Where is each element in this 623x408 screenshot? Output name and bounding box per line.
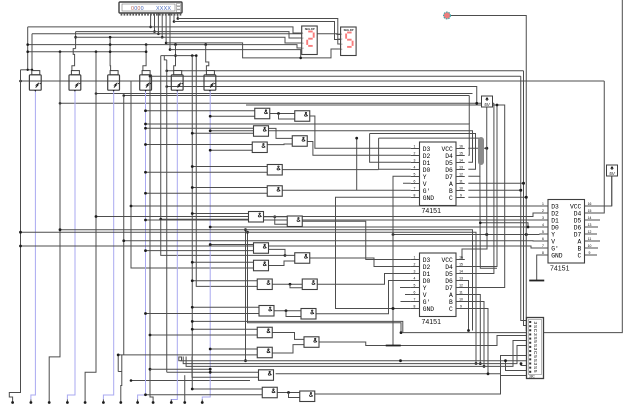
word generator XWG1 <box>119 2 182 16</box>
wire vertical V4 x123.75 <box>123 96 125 355</box>
wire gate input rail <box>150 334 257 336</box>
wire rail y246 to U6 pin7 <box>21 246 540 248</box>
svg-text:D3: D3 <box>423 146 431 153</box>
wire vertical V7 x160.75 to G12 in1 rail <box>161 56 285 256</box>
wire G21 branch to G22 in2 <box>289 393 300 398</box>
svg-text:3: 3 <box>542 216 544 220</box>
wire G21 out to G22 <box>277 392 300 394</box>
AND gate G18 <box>257 347 272 358</box>
wire G18 out to G19 in2 <box>272 345 304 353</box>
svg-text:Y: Y <box>423 285 427 292</box>
wire blue S3 output <box>103 91 113 400</box>
svg-text:VCC: VCC <box>570 203 582 210</box>
wire riser x369.6 to U4 D1 <box>370 134 411 163</box>
wire M8 down to U5 D4 <box>464 105 497 267</box>
digit 2 <box>307 32 314 46</box>
wire G12 out to U5 D2 <box>310 258 411 267</box>
wire rail y124 to U4 D4 <box>146 124 470 155</box>
wire vertical V10 x196.25 to G13 in2 <box>196 56 257 287</box>
svg-text:D3: D3 <box>551 203 559 210</box>
svg-text:Y: Y <box>423 174 427 181</box>
wire G9 out to 74151 U5 D3 <box>302 221 411 259</box>
wire riser x378.6 to U4 D0 <box>379 138 411 169</box>
wire riser to connector pin10 <box>521 364 527 366</box>
switch S4 <box>140 71 152 92</box>
svg-text:14: 14 <box>588 216 592 220</box>
wire S2 feed vertical A upper <box>75 32 77 49</box>
svg-text:D1: D1 <box>423 160 431 167</box>
wire vertical V9 x192.25 <box>191 56 193 389</box>
svg-text:D2: D2 <box>423 264 431 271</box>
svg-text:GND: GND <box>423 195 435 202</box>
wire rail y138.1 to U4 D7 <box>379 138 480 176</box>
wire terminal stub <box>201 400 203 403</box>
wire rail M4 bend to M7 <box>167 87 477 104</box>
AND gate G13 <box>257 279 272 290</box>
wire U5 D6 down <box>464 281 469 331</box>
svg-text:10: 10 <box>459 298 463 302</box>
svg-text:4: 4 <box>414 277 416 281</box>
+5V supply VCC2 <box>607 165 618 176</box>
wire M3 down to U6 D4 <box>593 81 604 213</box>
DIP connector J1 <box>527 318 544 379</box>
wire rail y216.5 to U6 D2 <box>96 213 540 217</box>
terminal node <box>66 401 69 404</box>
wire maze vertical x480.3 <box>480 176 497 268</box>
terminal node <box>201 401 204 404</box>
wire M7 down to U5 D5 <box>464 103 494 273</box>
wire terminal stub <box>170 400 172 403</box>
svg-text:A: A <box>449 292 453 299</box>
wire U5 GND stub <box>393 308 411 310</box>
wire from word generator pin <box>150 13 152 27</box>
svg-text:15: 15 <box>459 152 463 156</box>
wire G19 out to connector pin4 <box>319 336 527 346</box>
wire staircase hook <box>179 357 182 361</box>
svg-text:VCC: VCC <box>441 257 453 264</box>
svg-text:74151: 74151 <box>422 319 442 326</box>
wire U6 D5 stub <box>593 219 600 221</box>
wire rail y366.4 to connector pin5 <box>186 341 526 367</box>
wire terminal stub <box>184 400 186 403</box>
svg-text:SEG-DP: SEG-DP <box>305 27 315 31</box>
74151 multiplexer U6 <box>539 200 593 273</box>
svg-text:1: 1 <box>542 202 544 206</box>
wire WG to display U3 pin3 <box>178 19 341 45</box>
wire rail y133.5 to U4 D6 <box>370 134 476 170</box>
wire vertical V12 x247.5 joins route <box>248 232 402 332</box>
wire maze joins U6 D0 rail <box>480 223 528 227</box>
terminal node <box>170 401 173 404</box>
svg-text:5V: 5V <box>609 171 616 176</box>
ground GND2 <box>386 345 401 347</box>
svg-text:B: B <box>578 245 582 252</box>
wire rail y363.6 to connector pin6 <box>183 346 526 364</box>
svg-text:2: 2 <box>542 209 544 213</box>
AND gate G1 <box>255 108 270 119</box>
svg-text:16: 16 <box>588 202 592 206</box>
wire gate input rail <box>210 149 252 151</box>
wire x526.25 to U4 pin C <box>468 196 526 198</box>
svg-text:14: 14 <box>459 270 463 274</box>
wire U6 D6 stub <box>593 226 598 228</box>
wire U6 B stub <box>593 247 598 249</box>
wire terminal stub <box>137 400 139 403</box>
wire blue S6 output <box>202 91 210 400</box>
svg-text:7: 7 <box>542 244 544 248</box>
AND gate G20 <box>259 370 274 381</box>
wire riser to connector pin11 <box>506 361 527 371</box>
wire G11 out to G12 in2 <box>269 261 295 266</box>
74151 multiplexer U5 <box>411 253 465 326</box>
svg-text:A: A <box>578 238 582 245</box>
AND gate G10 <box>254 243 269 254</box>
wire gate input rail <box>146 394 263 396</box>
wire U5 A down <box>464 295 480 364</box>
wire G15 out to G16 <box>274 310 301 312</box>
svg-text:B: B <box>449 299 453 306</box>
switch S6 <box>204 71 216 92</box>
wire terminal stub <box>120 400 122 403</box>
svg-text:10: 10 <box>588 244 592 248</box>
wire vertical V5 x131 to G11 in2 <box>131 81 254 268</box>
wire rail R6 to display U2 pin4 <box>28 45 302 48</box>
wire x520.75 to U4 pin B <box>468 189 520 191</box>
svg-text:C: C <box>578 252 582 259</box>
svg-text:1: 1 <box>414 256 416 260</box>
svg-text:16: 16 <box>459 256 463 260</box>
wire terminal stub <box>30 400 32 403</box>
wire rail y229.7 wrap <box>60 230 473 331</box>
wire riser x356.7 to U4 G row <box>356 138 358 190</box>
svg-text:10: 10 <box>459 187 463 191</box>
wire rail M5 <box>96 93 473 95</box>
terminal node <box>119 401 122 404</box>
terminal node <box>84 401 87 404</box>
wire terminal stub <box>48 400 50 403</box>
wire rail R5 jog under display U2 to U3 <box>166 43 341 58</box>
wire WG to display U3 pin2 <box>174 22 341 40</box>
wire rail R2 to display U2 pin2 <box>76 32 302 38</box>
svg-text:D5: D5 <box>574 217 582 224</box>
wire rail R4 to display U2 pin3 <box>75 37 302 43</box>
wire gate input rail <box>146 171 268 173</box>
wire rail M7 <box>60 102 494 104</box>
wire terminal stub <box>66 400 68 403</box>
svg-text:9: 9 <box>460 194 462 198</box>
wire gate input rail <box>192 132 253 134</box>
svg-text:12: 12 <box>588 230 592 234</box>
svg-text:12: 12 <box>459 284 463 288</box>
wire G20 in1 rail <box>167 371 259 373</box>
terminal node <box>30 401 33 404</box>
wire U5 C down <box>464 309 488 374</box>
wire G13 branch to G14 in2 <box>290 284 302 288</box>
switch S2 <box>69 71 81 92</box>
wire G15 branch to G16 in2 <box>286 311 301 317</box>
svg-text:38C: 38C <box>529 375 536 379</box>
wire S1 feed vertical A <box>27 27 29 70</box>
wire gate input rail <box>192 261 253 263</box>
wire blue S5 output <box>171 91 177 402</box>
svg-text:D2: D2 <box>551 210 559 217</box>
terminal node <box>183 401 186 404</box>
svg-text:D6: D6 <box>445 278 453 285</box>
svg-text:3: 3 <box>414 270 416 274</box>
wire x523.5 to U4 pin A <box>468 182 523 184</box>
wire gate G1 out to G2 <box>270 113 295 115</box>
wire long route to right edge <box>192 0 622 333</box>
svg-text:D7: D7 <box>445 174 453 181</box>
wire gate input rail <box>192 166 267 168</box>
AND gate G16 <box>301 309 316 320</box>
wire S1 cap connector <box>21 69 33 71</box>
wire rail y377.2 G20 in2 <box>192 357 259 378</box>
svg-text:G′: G′ <box>551 245 559 252</box>
wire gate input rail <box>210 348 257 350</box>
svg-text:7: 7 <box>414 187 416 191</box>
svg-text:5: 5 <box>542 230 544 234</box>
switch S3 <box>108 71 120 92</box>
svg-text:74151: 74151 <box>422 208 442 215</box>
wire from word generator pin <box>154 13 156 32</box>
wire U6 C stub <box>593 254 597 256</box>
svg-text:6: 6 <box>414 291 416 295</box>
svg-text:7: 7 <box>414 298 416 302</box>
wire rail y130.75 to U4 D5 <box>210 131 472 163</box>
svg-text:4: 4 <box>414 166 416 170</box>
svg-text:5: 5 <box>414 173 416 177</box>
wire from word generator pin <box>173 13 175 22</box>
wire vertical V8 x166.75 <box>166 60 168 372</box>
wire U6 A stub <box>593 240 600 242</box>
svg-text:5: 5 <box>414 284 416 288</box>
wire U5 B down <box>464 302 484 367</box>
wire gate input rail <box>146 250 254 252</box>
wire from input pin to select C vertical <box>450 16 527 331</box>
svg-text:A: A <box>449 181 453 188</box>
wire from word generator pin <box>161 13 163 38</box>
wire terminal stub <box>152 400 154 403</box>
wire vertical V6 x150 <box>150 76 153 399</box>
svg-text:Y: Y <box>551 231 555 238</box>
AND gate G12 <box>295 253 310 264</box>
wire from word generator pin <box>169 13 171 50</box>
wire bundle blob <box>478 140 484 162</box>
svg-text:V: V <box>423 292 427 299</box>
wire terminal stub <box>12 400 14 403</box>
svg-text:5V: 5V <box>484 102 491 107</box>
wire rail M2 <box>150 75 521 77</box>
wire rail y55.6 <box>161 55 197 57</box>
wire U4 VCC to 5V <box>468 147 486 149</box>
wire U4 pin6 stub <box>403 182 411 184</box>
svg-text:D5: D5 <box>445 271 453 278</box>
wire G20 out to connector pin12 <box>276 374 527 376</box>
terminal node <box>136 401 139 404</box>
wire U5 VCC riser to 5V line <box>456 235 487 260</box>
wire gate input rail <box>118 354 257 356</box>
AND gate G9 <box>287 216 302 227</box>
wire G7 out to U4 G pin7 <box>282 189 411 191</box>
wire loop bottom at V4 <box>118 371 122 373</box>
svg-text:8: 8 <box>414 305 416 309</box>
wire M6 bend down <box>468 96 470 125</box>
wire rail y234.5 to U6 Y <box>393 234 540 236</box>
wire rail y360.7 to connector pin9 <box>180 360 526 362</box>
wire rail M1 <box>167 70 524 72</box>
wire gate input rail <box>192 388 262 390</box>
AND gate G11 <box>254 260 269 271</box>
wire G17 out to G19 in1 <box>272 333 304 340</box>
svg-text:D7: D7 <box>445 285 453 292</box>
seven segment display U2 <box>299 26 317 55</box>
wire gate input rail <box>210 115 255 117</box>
wire S3 feed vertical A <box>109 37 112 70</box>
wire G22 out to connector <box>315 356 527 395</box>
wire gate input rail <box>146 313 260 315</box>
digit 5 <box>346 33 353 47</box>
AND gate G8 <box>249 212 264 223</box>
svg-text:11: 11 <box>588 237 592 241</box>
svg-text:8: 8 <box>542 251 544 255</box>
svg-text:11: 11 <box>459 291 463 295</box>
terminal node <box>152 401 155 404</box>
wire rail y227 to U6 D0 <box>210 226 539 228</box>
switch S5 <box>171 71 183 92</box>
wire G1 out branch to G2 in2 <box>279 114 295 120</box>
wire G5 out to U4 D2 <box>307 142 411 156</box>
svg-text:D0: D0 <box>423 167 431 174</box>
svg-text:3SC3S5S3C5S3S5: 3SC3S5S3C5S3S5 <box>532 322 538 373</box>
wire rail y240.75 to U6 pin6 <box>124 240 540 242</box>
wire U4 GND route <box>336 197 411 308</box>
svg-text:D2: D2 <box>423 153 431 160</box>
wire blue S1 output <box>31 91 36 400</box>
wire S4 feed zigzag <box>143 45 146 71</box>
svg-text:GND: GND <box>551 252 563 259</box>
wire G14 out to U5 D1 <box>317 274 411 285</box>
wire rail R3 to display U3 pin1 <box>32 33 341 36</box>
svg-text:V: V <box>423 181 427 188</box>
svg-text:13: 13 <box>588 223 592 227</box>
wire rail R8 <box>170 50 301 58</box>
svg-text:14: 14 <box>459 159 463 163</box>
wire U5 pin6 stub <box>405 294 411 296</box>
wire 5V2 to U6 VCC <box>593 176 612 206</box>
AND gate G19 <box>304 337 319 348</box>
svg-text:D3: D3 <box>423 257 431 264</box>
wire G16 out to U5 D0 <box>316 281 411 314</box>
svg-text:3: 3 <box>414 159 416 163</box>
wire vertical V11 x245.5 <box>245 230 247 361</box>
svg-text:15: 15 <box>588 209 592 213</box>
wire gate input rail <box>192 280 257 282</box>
wire vertical V3 x96 <box>85 52 96 400</box>
svg-text:B: B <box>449 188 453 195</box>
AND gate G7 <box>267 186 282 197</box>
AND gate G15 <box>259 306 274 317</box>
svg-text:9: 9 <box>460 305 462 309</box>
svg-text:74151: 74151 <box>550 266 570 273</box>
terminal node <box>11 401 14 404</box>
AND gate G5 <box>292 136 307 147</box>
wire gate input rail <box>161 218 249 220</box>
svg-text:15: 15 <box>459 263 463 267</box>
svg-text:C: C <box>449 195 453 202</box>
wire S1 feed vertical B <box>31 34 33 71</box>
AND gate G4 <box>252 142 267 153</box>
wire rail y206 to U6 D3 <box>131 205 540 207</box>
wire select A vertical x523.5 <box>524 71 528 326</box>
wire bundle vertical to terminal <box>184 375 186 399</box>
ground GND1 <box>529 280 544 282</box>
wire gate input rail <box>210 244 253 246</box>
svg-text:13: 13 <box>459 166 463 170</box>
svg-text:6: 6 <box>414 180 416 184</box>
svg-text:8: 8 <box>414 194 416 198</box>
wire G8 out branch to G9 in2 <box>275 217 288 225</box>
+5V supply VCC1 <box>482 96 493 107</box>
svg-text:D1: D1 <box>423 271 431 278</box>
wire gate input rail <box>146 192 268 194</box>
svg-text:2: 2 <box>414 263 416 267</box>
svg-text:12: 12 <box>459 173 463 177</box>
wire G13 out to G14 <box>272 283 302 285</box>
svg-text:G′: G′ <box>423 299 431 306</box>
svg-text:D6: D6 <box>574 224 582 231</box>
svg-text:9: 9 <box>589 251 591 255</box>
svg-text:D7: D7 <box>574 231 582 238</box>
wire rail y220 to U6 D1 <box>146 219 540 221</box>
wire vertical V1 x20.5 <box>9 70 20 400</box>
svg-text:D4: D4 <box>574 210 582 217</box>
svg-text:4: 4 <box>542 223 544 227</box>
wire rail M3 <box>21 80 605 82</box>
input node pin <box>444 12 451 19</box>
wire G6 out joins riser <box>282 169 378 171</box>
wire S2 feed zigzag <box>72 49 76 71</box>
wire gate input rail <box>146 127 254 129</box>
svg-text:GND: GND <box>423 306 435 313</box>
wire G8 out to G9 <box>264 216 288 218</box>
wire terminal stub <box>102 400 104 403</box>
svg-text:D1: D1 <box>551 217 559 224</box>
svg-text:D5: D5 <box>445 160 453 167</box>
wire rail R7 switch S4 feed <box>28 51 146 53</box>
svg-text:G′: G′ <box>423 188 431 195</box>
wire U4 Y down to ground GND2 <box>393 176 411 345</box>
svg-text:0000: 0000 <box>131 6 144 12</box>
svg-text:2: 2 <box>414 152 416 156</box>
AND gate G6 <box>267 165 282 176</box>
wire 5V supply down <box>486 107 488 235</box>
wire loop right at V4 to terminal <box>121 355 122 400</box>
svg-text:11: 11 <box>459 180 463 184</box>
AND gate G17 <box>257 327 272 338</box>
wire loop left at V4 <box>117 355 119 372</box>
wire gate input rail <box>192 306 259 308</box>
wire step to V8 <box>164 56 166 60</box>
wire from word generator pin <box>157 13 159 34</box>
74151 multiplexer U4 <box>411 142 465 215</box>
wire rail y369.2 <box>150 368 210 370</box>
wire from word generator pin <box>177 13 179 19</box>
terminal node <box>102 401 105 404</box>
switch S1 <box>29 71 41 92</box>
wire U6 GND to ground GND1 <box>537 255 540 281</box>
wire gate input rail <box>192 328 257 330</box>
